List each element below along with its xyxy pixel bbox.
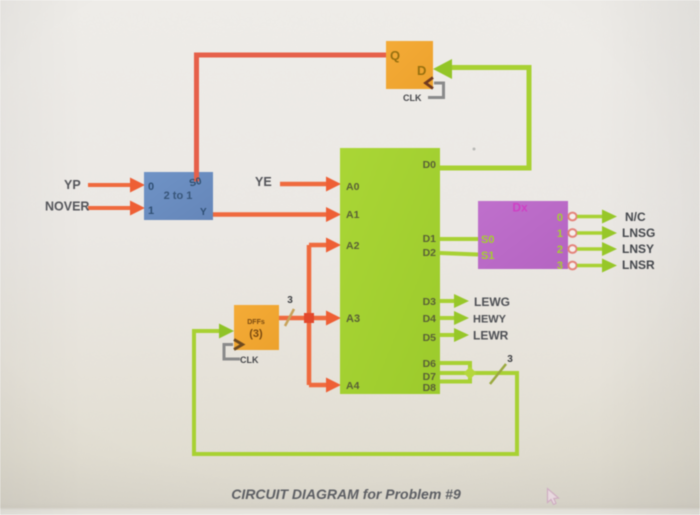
wire vertical bus A2-A4 [307, 245, 312, 385]
svg-text:S0: S0 [481, 234, 494, 246]
svg-text:N/C: N/C [625, 210, 646, 224]
wire D1 to S0 [440, 237, 478, 241]
svg-text:S1: S1 [481, 250, 494, 262]
svg-text:D2: D2 [423, 247, 437, 259]
svg-text:3: 3 [507, 354, 513, 365]
wire arrow output 2 [577, 242, 617, 256]
dust speck [473, 148, 476, 151]
svg-text:D1: D1 [423, 233, 437, 245]
svg-text:HEWY: HEWY [473, 314, 507, 326]
svg-text:0: 0 [557, 212, 563, 224]
wire arrow output 0 [577, 210, 617, 224]
svg-text:Dx: Dx [512, 201, 528, 215]
wire A2 arrow [309, 238, 341, 253]
DFFs clock chevron [234, 340, 243, 350]
wire YE arrow into A0 [280, 177, 341, 192]
wire A3 arrow [309, 311, 341, 326]
svg-text:Q: Q [390, 48, 400, 63]
svg-text:A2: A2 [346, 240, 360, 252]
flip-flop CLK wire [428, 83, 444, 98]
flip-flop U1 box [386, 41, 433, 89]
svg-text:YP: YP [64, 178, 81, 192]
wire feedback loop right vertical [515, 371, 519, 454]
wire D0 feedback loop to flip-flop D [440, 68, 529, 169]
svg-text:LEWR: LEWR [473, 329, 509, 343]
wire S0 stub overlapping mux [194, 171, 199, 182]
wire mux Y output to A1 [213, 207, 341, 222]
svg-text:A3: A3 [346, 313, 360, 325]
svg-text:Y: Y [200, 207, 207, 218]
wire D7 into bus merge [440, 371, 517, 375]
inverter bubble pin 0 [568, 213, 576, 221]
wire arrow output 1 [577, 226, 617, 240]
arrowhead into D pin [433, 59, 452, 79]
wire arrow output 3 [577, 259, 617, 273]
slash on DFFs output bus [285, 309, 294, 326]
wire NOVER arrow into mux pin 1 [88, 201, 145, 216]
svg-text:0: 0 [148, 181, 154, 193]
wire A4 arrow [309, 378, 341, 393]
wire D3 arrow LEWG [440, 294, 469, 308]
svg-text:NOVER: NOVER [45, 200, 89, 214]
svg-text:LNSY: LNSY [622, 242, 654, 256]
svg-text:LNSR: LNSR [622, 258, 655, 272]
svg-text:2: 2 [557, 244, 563, 256]
bus merge junction diamond [464, 367, 477, 380]
wire Q to S0 (flip-flop Q output down to mux select S0) [197, 55, 387, 172]
svg-text:D5: D5 [423, 332, 437, 344]
svg-text:CIRCUIT DIAGRAM for Problem #9: CIRCUIT DIAGRAM for Problem #9 [231, 486, 461, 502]
mouse cursor [548, 489, 559, 505]
slash on 3-bit bus [490, 364, 506, 384]
svg-text:D3: D3 [423, 296, 437, 308]
svg-text:DFFs: DFFs [247, 319, 265, 326]
inverter bubble pin 1 [568, 229, 576, 237]
svg-text:3: 3 [287, 295, 293, 306]
svg-text:LNSG: LNSG [622, 226, 655, 240]
svg-text:(3): (3) [249, 328, 263, 340]
wire D8 into bus merge [440, 373, 470, 382]
wire YP arrow into mux pin 0 [88, 178, 145, 193]
svg-text:YE: YE [255, 175, 272, 189]
wire D2 to S1 [440, 253, 478, 255]
svg-text:CLK: CLK [403, 93, 422, 103]
inverter bubble pin 2 [568, 245, 576, 253]
svg-text:D8: D8 [423, 382, 437, 394]
svg-text:3: 3 [557, 260, 563, 272]
wire D6 into bus merge [440, 363, 470, 373]
svg-text:D: D [417, 63, 426, 78]
svg-text:1: 1 [148, 205, 154, 217]
wire D4 arrow HEWY [440, 311, 469, 325]
inverter bubble pin 3 [568, 262, 576, 270]
svg-text:D6: D6 [423, 358, 437, 370]
wire DFFs output to bus junction [279, 316, 309, 321]
svg-text:LEWG: LEWG [474, 295, 510, 309]
decoder DX purple box [478, 201, 568, 269]
ROM/decoder main green box [340, 148, 440, 394]
svg-text:1: 1 [557, 228, 563, 240]
wire D5 arrow LEWR [440, 328, 469, 342]
mux 2to1 box [144, 172, 213, 220]
wire arrow into DFFs input [192, 324, 234, 339]
svg-text:A4: A4 [346, 380, 360, 392]
DFFs CLK wire [224, 345, 240, 360]
DFFs register box [234, 305, 279, 350]
wire feedback loop bottom horizontal [194, 452, 519, 456]
svg-text:D0: D0 [423, 159, 437, 171]
svg-text:A0: A0 [346, 181, 360, 193]
junction dot on A3 bus [304, 313, 314, 323]
wire feedback loop left vertical [192, 331, 196, 456]
svg-text:2 to 1: 2 to 1 [164, 190, 193, 202]
svg-text:CLK: CLK [240, 355, 259, 365]
flip-flop clock chevron [426, 78, 434, 89]
svg-text:D4: D4 [423, 313, 437, 325]
svg-text:A1: A1 [346, 209, 360, 221]
